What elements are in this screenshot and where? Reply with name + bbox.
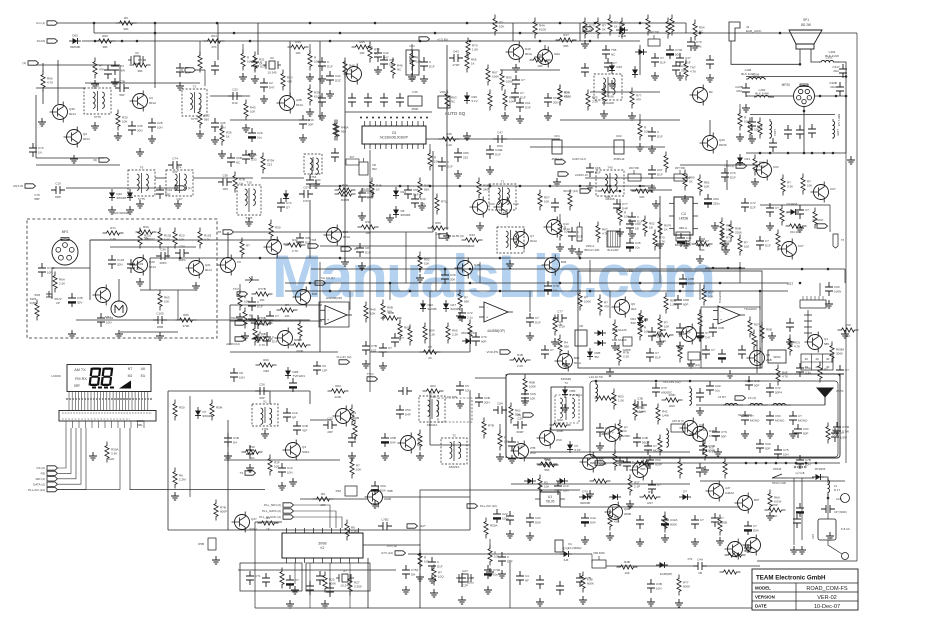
resistor R191 — [633, 400, 646, 421]
capacitor fill b6 — [648, 327, 663, 341]
wire x430 bus — [429, 291, 431, 352]
junction y186 x460 — [459, 185, 462, 188]
svg-text:20P4: 20P4 — [159, 261, 166, 265]
wire fill b3 — [419, 544, 421, 553]
svg-text:X1: X1 — [263, 400, 267, 404]
capacitor fill b4 — [623, 457, 638, 471]
resistor R230 — [590, 479, 611, 483]
transformer X1 2703 — [252, 400, 278, 432]
capacitor fill a3 — [420, 57, 435, 71]
capacitor C0B NC — [227, 153, 242, 167]
ground tr1 — [608, 80, 616, 88]
svg-text:A5023A: A5023A — [427, 423, 438, 427]
svg-text:5775: 5775 — [138, 197, 145, 201]
transistor D40a — [506, 42, 533, 63]
svg-text:C6: C6 — [322, 364, 326, 368]
svg-text:C?B: C?B — [371, 344, 377, 348]
svg-text:U04: U04 — [489, 202, 495, 206]
ground x303 — [299, 134, 307, 142]
ground below C5 b — [386, 214, 394, 222]
conn right mid 2 — [804, 310, 812, 340]
svg-text:C?0: C?0 — [696, 40, 702, 44]
svg-text:R4.5B: R4.5B — [341, 198, 349, 202]
resistor R213 — [408, 325, 412, 346]
capacitor C55 — [404, 185, 419, 199]
wire y391 long — [168, 390, 310, 392]
wire x406 mid — [405, 232, 407, 283]
inductor L206 — [746, 73, 766, 80]
ground x264 — [260, 95, 268, 103]
wire x345 c — [344, 160, 346, 258]
resistor R180 — [720, 218, 732, 239]
svg-text:D1F: D1F — [757, 125, 763, 129]
svg-text:10Z: 10Z — [624, 571, 629, 575]
ground ext25 — [521, 397, 529, 405]
capacitor C27B — [784, 125, 792, 139]
svg-text:2.2K: 2.2K — [59, 282, 65, 286]
svg-text:BLK 1/2W: BLK 1/2W — [741, 72, 755, 76]
diode D4B TVP — [285, 367, 305, 379]
svg-text:VERSION: VERSION — [755, 595, 775, 600]
ground ext2 — [341, 258, 349, 266]
svg-text:AM/FM (12): AM/FM (12) — [226, 342, 240, 346]
ground tr3 — [581, 40, 589, 48]
ground ext9 — [696, 255, 704, 263]
svg-text:X0?: X0? — [389, 58, 395, 62]
label OST — [787, 282, 794, 286]
wire jack to speaker — [731, 41, 800, 64]
pad +13.8V rf — [595, 461, 606, 465]
svg-text:C?40: C?40 — [675, 48, 683, 52]
resistor R143 — [838, 323, 859, 338]
transistor Q61 90Pb — [679, 324, 706, 345]
capacitor C159 — [696, 328, 711, 342]
svg-text:901A: 901A — [149, 101, 156, 105]
box K8AC jack — [812, 519, 850, 540]
resistor R2 fl — [335, 187, 356, 202]
capacitor C224 — [331, 148, 339, 162]
svg-text:D5B: D5B — [198, 542, 204, 546]
junction top rail x310 — [309, 22, 312, 25]
capacitor C118 — [398, 387, 412, 395]
svg-text:600: 600 — [372, 167, 377, 171]
resistor Rcol2 — [423, 323, 435, 344]
wire x368 pll drop — [367, 558, 369, 608]
svg-text:10K: 10K — [434, 160, 439, 164]
svg-text:M2: M2 — [128, 374, 133, 378]
pot VR9 600K — [592, 551, 606, 568]
wire x310 c — [309, 200, 311, 258]
svg-text:X2: X2 — [270, 56, 274, 60]
svg-text:10N: 10N — [157, 126, 163, 130]
resistor R158 — [323, 572, 336, 593]
svg-text:D8M: D8M — [157, 325, 164, 329]
svg-text:D1F: D1F — [275, 319, 281, 323]
svg-text:L2A 34.7W: L2A 34.7W — [589, 375, 603, 379]
svg-text:C2B: C2B — [484, 396, 490, 400]
svg-text:C?0: C?0 — [661, 386, 667, 390]
wire rf ladder rail — [696, 404, 825, 406]
wire x150 bus — [149, 258, 151, 290]
wire pll drop p3 — [329, 563, 331, 595]
diode D30 zener — [464, 92, 478, 104]
box 8607 — [688, 352, 700, 367]
svg-text:R00: R00 — [669, 404, 675, 408]
wire x58 vert — [57, 60, 59, 104]
diode D21 — [127, 189, 133, 201]
svg-text:C4?: C4? — [685, 56, 691, 60]
svg-text:T3: T3 — [239, 471, 243, 475]
capacitor C116 — [348, 433, 356, 447]
svg-text:C7B: C7B — [805, 458, 811, 462]
ground fill b1 — [496, 453, 504, 461]
transistor Q50B — [365, 487, 392, 508]
inductor L202 — [754, 95, 774, 97]
wire pll_clock — [294, 517, 342, 528]
svg-text:R04 10K: R04 10K — [790, 231, 800, 234]
svg-text:D04: D04 — [590, 521, 596, 525]
ground T4 — [174, 200, 182, 208]
wire y178 audio — [585, 177, 690, 179]
capacitor C223 — [318, 93, 326, 107]
diode D52 — [562, 386, 582, 398]
capacitor C61 — [516, 98, 531, 112]
capacitor C40 502 — [666, 45, 683, 59]
svg-text:UK: UK — [141, 367, 146, 371]
junction rfvcc x796 — [795, 462, 798, 465]
capacitor C196 — [693, 558, 707, 576]
capacitor C32 — [326, 71, 341, 85]
svg-text:D?: D? — [286, 206, 290, 210]
capacitor C83 — [696, 236, 710, 250]
wire above C5 — [345, 111, 432, 113]
junction y153 x770 — [769, 152, 772, 155]
svg-text:D235K: D235K — [621, 434, 630, 438]
resistor R30A — [105, 442, 119, 463]
capacitor C158 — [646, 348, 661, 362]
wire pll drop p4 — [349, 563, 351, 608]
capacitor C pll2 — [326, 583, 334, 597]
ground tl20 — [91, 80, 99, 88]
svg-text:DATE: DATE — [755, 604, 767, 609]
junction bus283 x390 — [389, 282, 392, 285]
svg-text:8Ω 2W: 8Ω 2W — [801, 23, 811, 27]
transformer T2 — [182, 85, 207, 122]
svg-text:C47: C47 — [705, 336, 711, 340]
resistor R131 — [550, 418, 571, 433]
svg-text:A46AV: A46AV — [725, 491, 734, 495]
junction bus291 x330 — [329, 290, 332, 293]
svg-text:Q4B: Q4B — [474, 263, 480, 267]
svg-text:L7B2: L7B2 — [381, 518, 388, 522]
svg-text:A000DC: A000DC — [661, 391, 673, 395]
resistor R110 — [458, 290, 469, 311]
svg-text:ROAD_COM-FS: ROAD_COM-FS — [806, 586, 848, 592]
svg-text:D1F: D1F — [657, 135, 663, 139]
ground fill a6b — [568, 245, 576, 253]
label C186 — [834, 511, 847, 514]
svg-text:R50: R50 — [435, 221, 441, 225]
capacitor C22x — [493, 509, 509, 523]
ground fill a7b — [748, 135, 756, 143]
svg-text:(P): (P) — [354, 247, 358, 251]
svg-text:B2: B2 — [709, 90, 713, 94]
capacitor fill b3 — [428, 557, 443, 571]
svg-text:VR? 50K: VR? 50K — [675, 166, 686, 170]
capacitor C36m — [156, 248, 170, 266]
svg-text:C67: C67 — [657, 168, 663, 172]
label C200 — [136, 419, 144, 427]
junction rf t3 — [689, 380, 692, 383]
svg-text:100K: 100K — [492, 75, 499, 79]
ground s03 b — [289, 478, 297, 486]
svg-text:C61: C61 — [525, 101, 531, 105]
transistor Q40 — [700, 133, 728, 154]
svg-text:3.3K: 3.3K — [787, 185, 793, 189]
ground ext34 — [371, 500, 379, 508]
transistor Q22 pnp small — [34, 291, 52, 299]
ground x467 — [463, 132, 471, 140]
capacitor C62 — [544, 93, 559, 107]
svg-text:C44E: C44E — [495, 148, 503, 152]
ground x200 — [196, 130, 204, 138]
svg-text:C?: C? — [660, 56, 664, 60]
ground ext43 — [661, 534, 669, 542]
capacitor C160 — [702, 345, 715, 359]
resistor R171c — [620, 18, 624, 39]
resistor R06d — [477, 178, 490, 199]
hatched cap box — [607, 231, 620, 252]
resistor R132 — [618, 420, 628, 441]
capacitor C8B — [679, 274, 695, 288]
resistor R0B tr — [252, 316, 273, 325]
wire mic h5 — [110, 246, 196, 248]
capacitor C84 — [756, 236, 771, 250]
svg-text:K.M: K.M — [696, 45, 702, 49]
diode D81 — [556, 478, 568, 484]
wire y96 tl — [210, 95, 250, 97]
transistor Q41 — [455, 258, 481, 279]
capacitor C195 — [556, 581, 564, 595]
resistor R135 — [538, 475, 549, 496]
svg-text:1B: 1B — [558, 323, 562, 327]
resistor R60 — [95, 34, 116, 49]
svg-text:10K: 10K — [179, 238, 184, 242]
svg-text:100K: 100K — [584, 300, 591, 304]
pad ATX (12) — [381, 551, 405, 555]
svg-text:AMP/F: AMP/F — [623, 348, 632, 352]
svg-text:900A: 900A — [294, 338, 301, 342]
svg-text:Q1: Q1 — [824, 337, 828, 341]
svg-text:(6): (6) — [179, 68, 183, 72]
ground cf a — [586, 182, 594, 190]
svg-text:901A: 901A — [574, 361, 581, 365]
LCD pin header — [59, 411, 156, 422]
svg-text:9W04B: 9W04B — [117, 196, 127, 200]
junction x846 y76 — [845, 75, 848, 78]
resistor R171b — [596, 18, 606, 39]
wire y165 r — [680, 164, 760, 166]
svg-text:TX1?: TX1? — [233, 287, 240, 291]
crystal X2b — [128, 51, 146, 64]
svg-text:220K: 220K — [334, 395, 341, 399]
dashed box pair — [438, 398, 472, 422]
resistor R121 — [523, 375, 536, 396]
transistor Q47 — [232, 512, 258, 533]
pot sq top — [245, 276, 259, 283]
svg-text:10K: 10K — [624, 215, 629, 219]
resistor R201b — [720, 570, 741, 574]
ground c3nw — [111, 78, 119, 86]
svg-text:78L05: 78L05 — [546, 500, 555, 504]
svg-text:R50A: R50A — [490, 524, 498, 528]
svg-text:A5023A: A5023A — [449, 465, 460, 469]
box SCF — [346, 156, 359, 165]
svg-text:(8): (8) — [517, 413, 521, 417]
resistor R5sq — [702, 285, 714, 306]
junction rail B x540 — [539, 40, 542, 43]
svg-text:56K: 56K — [464, 300, 469, 304]
svg-text:R43: R43 — [640, 456, 646, 460]
resistor R44 — [343, 58, 355, 79]
wire mic h7 — [120, 331, 178, 333]
svg-text:C?: C? — [550, 348, 554, 352]
ground pll b — [321, 600, 329, 608]
wire x447 — [446, 45, 448, 230]
transistor B06 — [542, 255, 567, 276]
svg-text:1%: 1% — [239, 182, 244, 186]
ground op2 — [254, 334, 262, 342]
junction bus258 x180 — [179, 257, 182, 260]
junction rfvcc x806 — [805, 462, 808, 465]
capacitor C193 — [458, 573, 474, 587]
ground ext40 — [526, 532, 534, 540]
resistor R198 — [280, 568, 284, 589]
capacitor C00 1B — [626, 219, 641, 233]
svg-text:C165: C165 — [156, 312, 164, 316]
ground ext42 — [606, 532, 614, 540]
transistor Q8 2N02 — [537, 428, 562, 449]
transistor Q30B — [50, 102, 77, 123]
resistor R63m — [158, 290, 170, 311]
diode D41 right — [462, 338, 474, 344]
resistor R95 — [738, 235, 749, 256]
capacitor C150c — [581, 63, 589, 77]
wire y178 a — [155, 177, 166, 179]
connector MP2 mic plug — [52, 230, 78, 265]
svg-text:PLL+5V (12): PLL+5V (12) — [337, 355, 352, 359]
svg-text:C10: C10 — [287, 466, 293, 470]
resistor R0B2 — [760, 322, 772, 343]
svg-text:FA.CV (1): FA.CV (1) — [321, 276, 334, 280]
svg-text:C00: C00 — [715, 384, 721, 388]
svg-text:R?: R? — [246, 244, 250, 248]
resistor fill b1 — [498, 430, 509, 451]
svg-text:EU: EU — [141, 374, 146, 378]
svg-text:200B: 200B — [624, 512, 631, 516]
svg-text:5775: 5775 — [94, 115, 101, 119]
wire pll right link — [363, 490, 580, 545]
junction y268 b — [727, 267, 730, 270]
transistor A2B — [277, 93, 304, 114]
svg-text:C4B: C4B — [642, 436, 648, 440]
pad TX4 (1) — [724, 164, 747, 168]
wire x43 down2 — [42, 90, 44, 104]
capacitor C42 50P top — [745, 376, 760, 390]
svg-text:C0?: C0? — [467, 576, 473, 580]
svg-text:C?: C? — [711, 348, 715, 352]
ground x246 — [242, 124, 250, 132]
svg-text:C45: C45 — [635, 241, 641, 245]
resistor R210 — [243, 308, 254, 329]
pad CS700GT — [817, 224, 828, 228]
svg-text:D(M): D(M) — [30, 301, 37, 305]
wire x36 tl2 — [35, 95, 37, 158]
resistor R201 — [748, 118, 759, 139]
capacitor fill b8 — [263, 332, 278, 346]
transistor B04 — [324, 225, 351, 246]
resistor R64 — [204, 34, 225, 49]
ground bout — [652, 200, 660, 208]
junction rail A2 x234 — [233, 32, 236, 35]
inductor L9 — [771, 403, 791, 405]
svg-text:67P: 67P — [172, 170, 177, 174]
svg-text:10u: 10u — [635, 246, 640, 250]
resistor R141 — [818, 362, 828, 383]
svg-text:MONO: MONO — [775, 419, 785, 423]
transistor Q48 — [605, 502, 632, 523]
junction y269 r2 — [827, 268, 830, 271]
ground x118 — [114, 132, 122, 140]
circle jack PA — [842, 553, 849, 560]
capacitor C pll1 — [306, 581, 314, 595]
svg-text:300K: 300K — [836, 352, 843, 356]
resistor R133 — [658, 435, 662, 456]
svg-text:20K: 20K — [450, 278, 455, 282]
motor M61 — [105, 301, 127, 319]
svg-text:GAN: GAN — [108, 457, 115, 461]
label 50B — [387, 489, 392, 493]
resistor R125 — [268, 455, 280, 476]
ground q05 — [586, 490, 594, 498]
capacitor C102 — [633, 397, 647, 415]
svg-text:C80: C80 — [463, 151, 469, 155]
resistor R7B left — [482, 418, 494, 439]
svg-text:C6? (600K): C6? (600K) — [834, 511, 847, 514]
svg-text:PLL+5V (12): PLL+5V (12) — [28, 488, 45, 492]
svg-text:T10: T10 — [246, 181, 252, 185]
svg-text:10u: 10u — [257, 136, 262, 140]
svg-text:56K: 56K — [249, 318, 254, 322]
svg-text:R5M: R5M — [216, 406, 223, 410]
svg-text:40: 40 — [826, 357, 830, 361]
capacitor C57 — [299, 186, 313, 204]
ground below C5 a — [358, 212, 366, 220]
wire x320 bus — [319, 283, 321, 352]
wire y507 pr — [560, 506, 740, 508]
resistor fill b4 — [613, 450, 624, 471]
resistor R7B pct — [233, 172, 245, 193]
svg-text:D0K: D0K — [535, 521, 541, 525]
svg-text:TX1B: TX1B — [310, 238, 317, 242]
capacitor C35 — [128, 121, 143, 135]
junction bus258 x580 — [579, 257, 582, 260]
svg-text:VR0-B: VR0-B — [440, 90, 449, 94]
svg-text:300B: 300B — [318, 542, 327, 546]
ground fill b2b — [498, 570, 506, 578]
inductor L7 — [748, 403, 768, 405]
pad Ain (1) — [36, 21, 57, 25]
